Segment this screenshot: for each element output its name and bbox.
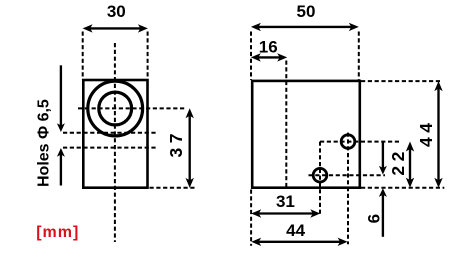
dimension 6 lower arrow xyxy=(379,188,387,237)
dimension 44 right line xyxy=(434,81,442,188)
vertical centerline xyxy=(114,43,116,242)
hidden hole line lower xyxy=(63,147,158,149)
svg-text:50: 50 xyxy=(297,2,316,21)
holes dia 6,5 lower arrow xyxy=(57,148,65,186)
svg-text:44: 44 xyxy=(286,221,305,240)
hole H2 centerline vertical xyxy=(319,142,321,217)
hole H1 centerline horizontal xyxy=(320,141,400,143)
outer bore circle xyxy=(88,81,143,136)
dimension 16 line xyxy=(251,53,287,61)
dimension 31 line xyxy=(251,209,320,217)
svg-text:37: 37 xyxy=(166,129,186,157)
extension line top right xyxy=(361,80,440,82)
dimension 6 upper arrow xyxy=(379,142,387,175)
svg-text:44: 44 xyxy=(416,119,436,147)
holes dia 6,5 upper arrow xyxy=(57,65,65,132)
dimension 22 line xyxy=(406,142,414,188)
hole H2 centerline horizontal xyxy=(309,174,386,176)
dimension 37 line xyxy=(186,108,194,188)
svg-text:31: 31 xyxy=(276,192,295,211)
extension line left of 50 xyxy=(250,32,252,81)
extension line bottom right xyxy=(361,187,444,189)
body outline side view xyxy=(252,81,360,188)
bore depth hidden line xyxy=(285,61,287,188)
body outline left view xyxy=(83,80,147,188)
svg-text:[mm]: [mm] xyxy=(36,224,79,241)
horizontal centerline xyxy=(78,107,185,109)
svg-text:6: 6 xyxy=(365,214,384,223)
inner bore circle xyxy=(99,92,132,125)
extension line left of 30 xyxy=(82,32,84,80)
extension line left below body xyxy=(250,190,252,246)
dimension 50 line xyxy=(251,23,359,31)
svg-text:16: 16 xyxy=(259,38,278,57)
svg-text:30: 30 xyxy=(107,2,126,21)
svg-text:Holes Φ 6,5: Holes Φ 6,5 xyxy=(36,99,53,187)
dimension 30 line xyxy=(83,24,148,32)
hole H1 xyxy=(341,135,355,149)
hole H2 xyxy=(313,168,327,182)
extension line right of 50 xyxy=(358,32,360,81)
hole H1 centerline vertical xyxy=(347,133,349,245)
dimension 44 bottom line xyxy=(251,238,347,246)
hidden hole line upper xyxy=(63,132,158,134)
svg-text:22: 22 xyxy=(388,147,408,175)
extension line right of 30 xyxy=(147,32,149,80)
extension line bottom of 37 xyxy=(150,187,195,189)
